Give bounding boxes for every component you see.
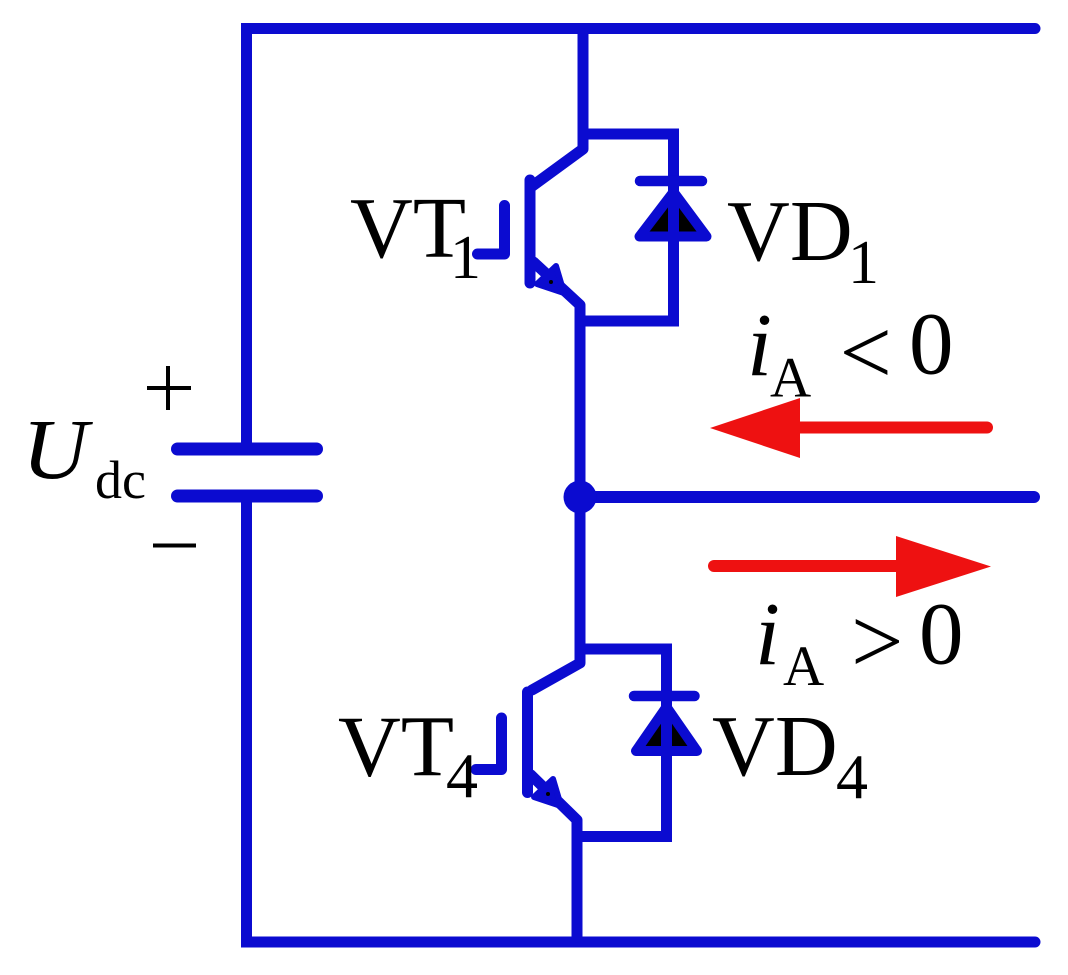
svg-text:i: i — [747, 296, 772, 395]
svg-text:VD: VD — [712, 697, 838, 794]
svg-text:A: A — [770, 347, 811, 410]
svg-text:VT: VT — [338, 698, 454, 795]
svg-text:1: 1 — [848, 229, 879, 297]
svg-text:A: A — [783, 635, 824, 698]
svg-text:0: 0 — [909, 296, 954, 394]
svg-text:VD: VD — [727, 182, 853, 279]
svg-text:4: 4 — [836, 741, 868, 812]
svg-text:1: 1 — [450, 224, 481, 292]
svg-text:<: < — [840, 302, 892, 405]
svg-text:U: U — [22, 401, 93, 497]
svg-text:0: 0 — [919, 586, 964, 684]
svg-text:4: 4 — [446, 740, 478, 811]
svg-text:>: > — [851, 591, 903, 694]
svg-text:dc: dc — [95, 450, 146, 510]
svg-text:i: i — [755, 585, 780, 684]
svg-text:VT: VT — [350, 179, 466, 276]
